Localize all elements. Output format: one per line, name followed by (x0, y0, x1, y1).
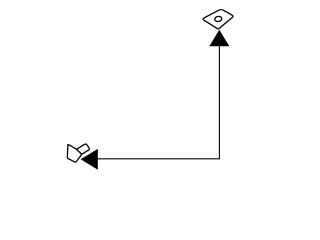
wire vertical segment (218, 46, 220, 159)
arrowhead up (209, 30, 229, 47)
arrowhead left (81, 149, 98, 170)
wire horizontal segment (98, 158, 220, 160)
node bottom-left: sheet pentagon (67, 145, 81, 163)
node bottom-left: folded flap (77, 144, 89, 154)
node top-right: rounded diamond (203, 10, 233, 29)
node top-right: inner circle (214, 16, 222, 22)
